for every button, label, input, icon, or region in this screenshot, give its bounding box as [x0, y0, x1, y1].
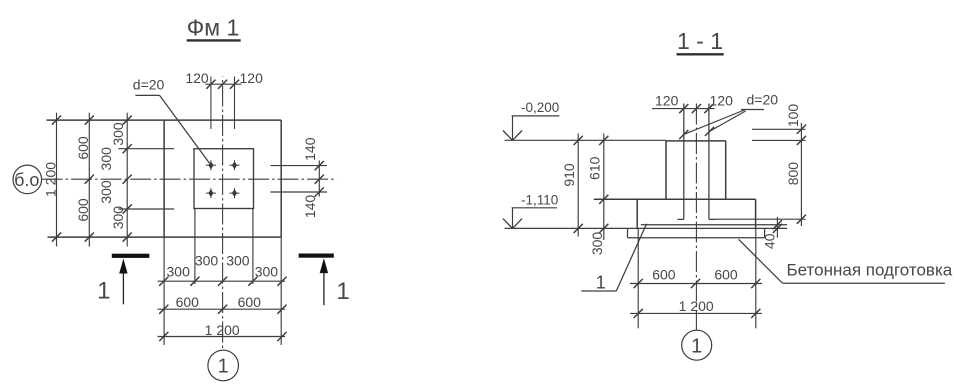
svg-text:100: 100 [785, 104, 801, 128]
bolt projection lines above plan [211, 77, 235, 129]
svg-text:300: 300 [226, 253, 250, 269]
anchor bolt bottom-right [230, 188, 240, 198]
label Бетонная подготовка with leader [739, 239, 953, 283]
elevation mark -1,110 [503, 193, 558, 229]
d=20 label with leaders (section) [679, 92, 778, 140]
left dimension line 910 [561, 134, 583, 237]
right dimension 140/140 [271, 137, 328, 218]
svg-text:Бетонная подготовка: Бетонная подготовка [787, 261, 953, 280]
bottom dimension line 300x4 [158, 253, 287, 286]
dimension 40 (prep thickness) [762, 217, 783, 249]
section cut mark right [299, 254, 350, 306]
svg-text:600: 600 [238, 294, 262, 310]
svg-text:120: 120 [655, 92, 679, 108]
footing outline [594, 199, 756, 228]
svg-text:1 - 1: 1 - 1 [677, 28, 723, 54]
left dimension line 610/300 [587, 134, 609, 256]
bottom dimension line 1200 [158, 322, 287, 341]
svg-text:1: 1 [596, 273, 606, 293]
extension lines below section [638, 228, 756, 328]
extension line inner square bottom [118, 208, 174, 210]
reinforcing mesh line [641, 224, 787, 226]
svg-text:-1,110: -1,110 [521, 193, 558, 208]
svg-text:300: 300 [98, 147, 114, 171]
svg-text:120: 120 [240, 70, 264, 86]
d=20 label with leader [133, 76, 210, 163]
elevation mark -0,200 [503, 100, 560, 141]
svg-text:1: 1 [97, 277, 110, 304]
svg-text:1: 1 [691, 335, 702, 357]
left dimension line 600/600 [75, 113, 94, 247]
right dimension line 100/800 [785, 104, 806, 226]
left dimension line 300x4 [98, 113, 132, 247]
anchor bolt top-right [230, 160, 240, 170]
concrete prep layer outline [628, 228, 765, 237]
title 1 - 1 [677, 28, 724, 54]
bottom dimension line 600/600 (section) [630, 267, 762, 289]
anchor bolt right (section) [709, 104, 716, 220]
svg-text:300: 300 [98, 180, 114, 204]
horizontal centerline [42, 178, 337, 180]
svg-text:800: 800 [785, 162, 801, 186]
title Фм 1 [187, 15, 241, 41]
svg-text:600: 600 [714, 267, 738, 283]
svg-text:610: 610 [587, 156, 603, 180]
svg-text:d=20: d=20 [133, 76, 165, 92]
top dimension line 120/120 [185, 70, 263, 89]
svg-text:1: 1 [218, 356, 229, 378]
svg-text:600: 600 [652, 267, 676, 283]
svg-text:600: 600 [75, 136, 91, 160]
section centerline [695, 104, 697, 331]
vertical centerline [222, 77, 224, 352]
svg-text:40: 40 [762, 233, 778, 249]
level line -0.200 [505, 139, 666, 141]
right extension lines [715, 129, 806, 219]
column stub outline (600x600 inner square) [194, 149, 254, 209]
svg-text:300: 300 [167, 263, 191, 279]
svg-text:300: 300 [195, 253, 219, 269]
svg-text:120: 120 [710, 92, 734, 108]
svg-text:1 200: 1 200 [43, 162, 59, 197]
svg-text:d=20: d=20 [747, 92, 779, 108]
svg-text:600: 600 [176, 294, 200, 310]
svg-text:600: 600 [75, 198, 91, 222]
left dimension line 1200 [43, 113, 62, 247]
anchor bolt top-left [206, 160, 216, 170]
svg-text:300: 300 [110, 122, 126, 146]
bottom dimension line 600/600 [158, 294, 287, 314]
svg-text:120: 120 [185, 70, 209, 86]
svg-text:-0,200: -0,200 [521, 100, 559, 115]
footing bottom / level -1.110 line [505, 227, 787, 229]
svg-text:140: 140 [302, 137, 318, 161]
leader label 1 (mesh) [581, 224, 646, 293]
svg-text:Фм 1: Фм 1 [187, 15, 239, 41]
svg-text:300: 300 [589, 232, 605, 256]
svg-text:1 200: 1 200 [679, 298, 714, 314]
anchor bolt bottom-left [206, 188, 216, 198]
pedestal outline [666, 141, 726, 199]
anchor bolt left (section) [678, 104, 684, 220]
bottom dimension line 1200 (section) [630, 298, 762, 318]
foundation outline (1200x1200 square) [47, 120, 282, 237]
axis bubble 1 (plan) [208, 350, 239, 381]
svg-text:140: 140 [302, 195, 318, 219]
svg-text:300: 300 [255, 263, 279, 279]
svg-text:910: 910 [561, 163, 577, 187]
svg-text:1 200: 1 200 [205, 322, 240, 338]
axis bubble 1 (section) [682, 330, 712, 360]
extension line inner square top [118, 148, 174, 150]
section cut mark left [97, 254, 149, 305]
svg-text:1: 1 [336, 278, 349, 305]
top dimension line 120/120 (section) [652, 92, 733, 113]
svg-text:б.о: б.о [14, 170, 39, 190]
extension lines below plan [164, 208, 281, 345]
axis bubble б.о [13, 165, 42, 194]
